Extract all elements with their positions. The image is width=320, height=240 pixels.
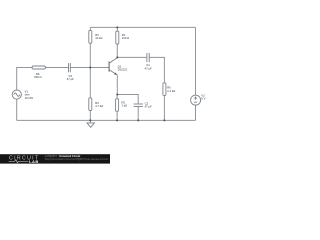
wire C3 to base [70, 67, 109, 69]
wire top rail [90, 26, 195, 28]
svg-text:600 Ω: 600 Ω [34, 75, 41, 79]
resistor R5 [163, 83, 175, 96]
footer bar [0, 154, 110, 164]
capacitor C3 [67, 63, 74, 81]
node base bias [89, 67, 91, 69]
wire R4 top lead [89, 68, 91, 98]
resistor R3 [89, 31, 103, 44]
resistor R6 [32, 66, 45, 79]
source V1 [12, 90, 34, 100]
svg-text:9 V: 9 V [201, 97, 205, 101]
wire C1 to R5 corner [149, 57, 164, 83]
node junction dots [89, 26, 165, 121]
ground [87, 120, 94, 127]
wire right supply vertical bottom [195, 105, 197, 120]
node collector [116, 56, 118, 58]
wire R1 top lead [116, 27, 118, 31]
svg-text:10 kΩ: 10 kΩ [95, 36, 102, 40]
wire R6 to C3 [45, 67, 68, 69]
svg-text:http://circuitlab.com/c/s478j3: http://circuitlab.com/c/s478j3872/unname… [45, 158, 109, 161]
svg-text:47 µF: 47 µF [145, 105, 152, 109]
wire R4 bottom lead [89, 110, 91, 120]
svg-text:C1: C1 [146, 63, 150, 67]
source V2 [191, 94, 206, 106]
node R1 top [116, 26, 118, 28]
node ground rail R4 [89, 119, 91, 121]
svg-text:1 kΩ: 1 kΩ [122, 104, 128, 108]
svg-text:47 µF: 47 µF [145, 66, 152, 70]
wire right supply vertical top [195, 27, 197, 95]
capacitor C1 [145, 53, 152, 70]
resistor R1 [116, 31, 129, 44]
wire bottom ground rail [17, 119, 196, 121]
wire C2 bottom lead [137, 106, 139, 120]
svg-text:LAB: LAB [29, 159, 39, 164]
wire R3 bottom lead [89, 43, 91, 67]
node ground rail R5 [163, 119, 165, 121]
svg-text:100 Ω: 100 Ω [122, 36, 129, 40]
wire R3 top lead [89, 27, 91, 30]
node emitter [116, 94, 118, 96]
node ground rail C2 [137, 119, 139, 121]
capacitor C2 [134, 101, 153, 108]
wire emitter node to C2 [117, 95, 138, 105]
wire emitter lead [116, 75, 118, 95]
transistor Q1 [109, 58, 128, 75]
resistor R4 [89, 98, 103, 111]
wire R2 top lead [116, 95, 118, 99]
svg-text:10 kHz: 10 kHz [25, 96, 34, 100]
wire R2 bottom lead [116, 111, 118, 120]
wire V1 top lead [17, 68, 32, 91]
svg-text:4.7 kΩ: 4.7 kΩ [95, 104, 103, 108]
svg-text:2N2222: 2N2222 [118, 68, 128, 72]
wire collector node to C1 [117, 56, 147, 58]
svg-text:2.2 kΩ: 2.2 kΩ [167, 89, 175, 93]
wire R5 bottom lead [163, 95, 165, 120]
node ground rail R2 [116, 119, 118, 121]
svg-text:47 µF: 47 µF [67, 77, 74, 81]
wire V1 bottom lead [16, 99, 18, 120]
wire R1 bottom lead [116, 44, 118, 57]
resistor R2 [116, 99, 128, 111]
